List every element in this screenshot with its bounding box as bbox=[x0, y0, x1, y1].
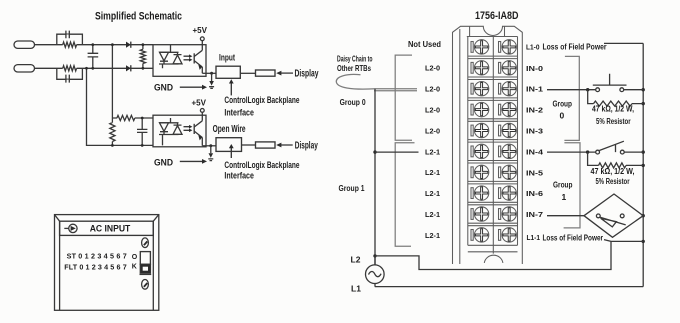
svg-text:Group 0: Group 0 bbox=[340, 97, 366, 107]
svg-text:+5V: +5V bbox=[193, 25, 208, 35]
svg-text:Loss of Field Power: Loss of Field Power bbox=[543, 232, 604, 242]
terminal screw row 4 left bbox=[471, 102, 489, 116]
L2-1 label row 9 bbox=[425, 210, 440, 219]
resistor R4 vertical between lines bbox=[140, 43, 145, 69]
terminal row separator 7 bbox=[468, 181, 518, 184]
svg-text:Group: Group bbox=[553, 98, 573, 108]
terminal row separator 10 bbox=[468, 244, 518, 246]
L2-1 label row 6 bbox=[425, 147, 440, 156]
svg-text:L2-1: L2-1 bbox=[425, 189, 440, 198]
svg-text:Open Wire: Open Wire bbox=[213, 124, 246, 135]
svg-text:Group: Group bbox=[553, 179, 573, 189]
terminal row separator 5 bbox=[468, 140, 518, 143]
terminal screw row 10 right bbox=[499, 228, 517, 242]
svg-text:K: K bbox=[132, 264, 137, 271]
svg-text:L2-1: L2-1 bbox=[425, 168, 440, 177]
Group 0 left label bbox=[340, 97, 366, 107]
svg-text:L1-0: L1-0 bbox=[526, 42, 540, 51]
svg-text:GND: GND bbox=[154, 83, 173, 93]
terminal row separator 3 bbox=[468, 98, 518, 101]
U2 phototransistor Q2 bbox=[194, 115, 202, 146]
wire tap from line2 down to bottom rail bbox=[85, 67, 153, 145]
IN-5 label bbox=[526, 168, 543, 177]
terminal screw row 6 left bbox=[471, 144, 489, 158]
L2-1 label row 7 bbox=[425, 168, 440, 177]
L2-1 label row 8 bbox=[425, 189, 440, 198]
ControlLogix Backplane Interface label (upper) bbox=[224, 95, 299, 119]
capacitor C3 between line1 and line2 bbox=[88, 43, 99, 69]
svg-text:L2-1: L2-1 bbox=[425, 231, 440, 240]
U1 phototransistor Q1 bbox=[194, 45, 202, 74]
terminal screw row 2 left bbox=[471, 61, 489, 75]
op-amp U1 optocoupler box (Input channel) bbox=[153, 45, 206, 77]
svg-text:47 kΩ, 1/2 W,: 47 kΩ, 1/2 W, bbox=[591, 167, 635, 176]
terminal screw row 5 left bbox=[471, 123, 489, 137]
L2-0 label row 4 bbox=[425, 106, 440, 115]
terminal screw row 8 left bbox=[471, 186, 489, 200]
terminal screw row 3 right bbox=[499, 82, 517, 96]
Not Used label bbox=[408, 39, 441, 49]
resistor 47k group 1 bbox=[588, 152, 644, 168]
wire IN-1 to switch S1 bbox=[547, 88, 596, 91]
+5V terminal upper bbox=[193, 25, 208, 45]
terminal block RTB outer housing bbox=[453, 26, 523, 264]
AC source V1 bbox=[366, 256, 385, 287]
resistor R1 on line1 bbox=[63, 42, 77, 47]
svg-text:IN-5: IN-5 bbox=[526, 168, 543, 177]
svg-text:IN-3: IN-3 bbox=[526, 127, 543, 136]
terminal screw row 7 left bbox=[471, 165, 489, 179]
Open Wire box bbox=[213, 124, 246, 152]
47 kOhm label group 1 bbox=[591, 167, 635, 186]
terminal screw row 9 right bbox=[499, 207, 517, 221]
wire IN-7 to diamond sensor bbox=[547, 215, 584, 217]
wire tap from line1 down to open-wire network bbox=[111, 43, 114, 118]
svg-text:L2-1: L2-1 bbox=[425, 147, 440, 156]
svg-text:IN-2: IN-2 bbox=[526, 106, 543, 115]
L2-0 label row 2 bbox=[425, 64, 440, 73]
ControlLogix Backplane Interface arrow (lower) bbox=[229, 144, 234, 158]
L2-1 label row 10 bbox=[425, 231, 440, 240]
OK indicator boxes bbox=[140, 252, 152, 275]
terminal row separator 6 bbox=[468, 161, 518, 164]
resistor R5 vertical bbox=[110, 118, 115, 147]
GND label and arrow (upper) bbox=[154, 83, 207, 93]
resistor R3 horizontal bbox=[112, 115, 153, 120]
wire L1-0 to L1 rail bbox=[604, 42, 643, 44]
svg-text:IN-1: IN-1 bbox=[526, 85, 543, 94]
L2-0 label row 3 bbox=[425, 85, 440, 94]
optocoupler U2 box (Open Wire channel) bbox=[153, 115, 206, 147]
group 1 right bracket bbox=[564, 143, 580, 228]
terminal screw row 6 right bbox=[499, 144, 517, 158]
Display label arrow (upper) bbox=[276, 69, 319, 80]
module front panel outer box bbox=[55, 215, 159, 311]
ground drop at U2 output bbox=[208, 146, 213, 161]
wire IN-4 to switch S2 bbox=[547, 150, 596, 153]
svg-text:GND: GND bbox=[154, 157, 173, 167]
svg-text:1: 1 bbox=[562, 192, 567, 202]
svg-text:L2-0: L2-0 bbox=[425, 106, 440, 115]
display indicator box (lower) bbox=[256, 142, 276, 148]
Daisy Chain to Other RTBs label bbox=[337, 53, 373, 73]
svg-text:L1: L1 bbox=[351, 283, 361, 293]
screw top bbox=[142, 238, 149, 248]
ground drop at U1 output bbox=[209, 73, 214, 88]
screw bottom bbox=[142, 280, 149, 290]
terminal screw row 8 right bbox=[499, 186, 517, 200]
title Simplified Schematic bbox=[95, 11, 182, 23]
group 1 left bracket bbox=[395, 143, 414, 246]
Group 1 left label bbox=[339, 183, 365, 193]
L1 bottom wire bbox=[375, 286, 643, 288]
IN-7 label bbox=[526, 210, 543, 219]
switch S2 (open) bbox=[596, 141, 644, 154]
terminal screw row 5 right bbox=[499, 123, 517, 137]
L1-0 Loss of Field Power label bbox=[526, 42, 607, 52]
capacitor C1 parallel branch above R1 bbox=[57, 31, 83, 45]
ControlLogix Backplane Interface label (lower) bbox=[224, 160, 299, 181]
terminal screw row 1 left bbox=[471, 40, 489, 54]
status text ST row bbox=[67, 251, 127, 260]
IN-1 label bbox=[526, 85, 543, 94]
terminal row separator 2 bbox=[468, 77, 518, 80]
switch S1 (closed) bbox=[593, 74, 643, 92]
svg-text:Display: Display bbox=[295, 141, 318, 152]
wire L2-1 feed bbox=[375, 151, 419, 153]
OK letters bbox=[132, 254, 138, 271]
capacitor C2 parallel branch below R2 bbox=[57, 68, 83, 82]
svg-text:Loss of Field Power: Loss of Field Power bbox=[543, 42, 608, 52]
terminal row separator 9 bbox=[468, 223, 518, 226]
U2 LED pair bbox=[159, 118, 182, 145]
svg-text:IN-4: IN-4 bbox=[526, 147, 544, 156]
terminal screw row 10 left bbox=[471, 228, 489, 242]
terminal screw row 2 right bbox=[499, 61, 517, 75]
L2-0 label row 5 bbox=[425, 126, 440, 135]
svg-text:+5V: +5V bbox=[192, 98, 207, 108]
resistor R2 on line2 bbox=[63, 66, 77, 71]
wire line2 from T2 to opto U1 bbox=[35, 67, 154, 69]
svg-text:Interface: Interface bbox=[224, 170, 254, 181]
svg-text:IN-7: IN-7 bbox=[526, 210, 543, 219]
L1-1 Loss of Field Power label bbox=[527, 232, 604, 242]
svg-text:5% Resistor: 5% Resistor bbox=[596, 177, 630, 186]
svg-text:ControlLogix Backplane: ControlLogix Backplane bbox=[224, 95, 299, 106]
terminal row separator 8 bbox=[468, 202, 518, 205]
loss of field power diamond sensor bbox=[584, 194, 643, 237]
wire L1-1 to diamond and L1 rail bbox=[375, 240, 643, 270]
terminal screw row 9 left bbox=[471, 207, 489, 221]
U1 light coupling arrows bbox=[184, 54, 193, 61]
svg-text:Interface: Interface bbox=[224, 108, 254, 119]
svg-text:O: O bbox=[132, 254, 138, 261]
input terminal oval T2 bbox=[14, 65, 35, 72]
L2 label bbox=[351, 254, 361, 264]
svg-text:L2: L2 bbox=[351, 254, 361, 264]
svg-text:1756-IA8D: 1756-IA8D bbox=[475, 10, 519, 22]
IN-2 label bbox=[526, 106, 543, 115]
Group 1 right label bbox=[553, 179, 573, 202]
svg-text:0: 0 bbox=[560, 111, 565, 121]
svg-text:5% Resistor: 5% Resistor bbox=[596, 117, 631, 126]
svg-text:Display: Display bbox=[295, 69, 319, 80]
svg-text:L2-0: L2-0 bbox=[425, 85, 440, 94]
svg-text:L2-0: L2-0 bbox=[425, 126, 440, 135]
svg-text:ST 0 1 2 3 4 5 6 7: ST 0 1 2 3 4 5 6 7 bbox=[67, 251, 127, 260]
diode D2 on line2 bbox=[126, 65, 131, 71]
svg-text:Simplified Schematic: Simplified Schematic bbox=[95, 11, 182, 23]
svg-text:L2-0: L2-0 bbox=[425, 64, 440, 73]
terminal row separator 1 bbox=[468, 56, 518, 59]
L1 right rail bbox=[642, 43, 645, 286]
terminal row separator 4 bbox=[468, 119, 518, 122]
wire U1 output to Input box bbox=[202, 72, 216, 75]
terminal screw row 4 right bbox=[499, 102, 517, 116]
svg-text:Other RTBs: Other RTBs bbox=[337, 63, 371, 73]
resistor 47k group 0 bbox=[588, 90, 644, 106]
module header strip AC INPUT bbox=[60, 221, 154, 235]
svg-text:Not Used: Not Used bbox=[408, 39, 441, 49]
terminal screw row 7 right bbox=[499, 165, 517, 179]
svg-text:ControlLogix Backplane: ControlLogix Backplane bbox=[224, 160, 299, 171]
U2 light coupling arrows bbox=[184, 125, 193, 132]
group 0 left bracket bbox=[395, 55, 412, 140]
wire line1 from T1 to opto U1 bbox=[35, 44, 154, 46]
svg-text:IN-6: IN-6 bbox=[526, 189, 543, 198]
IN-4 label bbox=[526, 147, 544, 156]
terminal grid frame bbox=[467, 37, 518, 246]
group 0 right bracket bbox=[564, 56, 579, 140]
status text FLT row bbox=[64, 263, 126, 272]
display indicator box (upper) bbox=[256, 70, 276, 76]
module input icon bbox=[64, 224, 77, 232]
svg-text:AC INPUT: AC INPUT bbox=[90, 224, 131, 234]
47 kOhm label group 0 bbox=[592, 104, 634, 126]
L1 label bbox=[351, 283, 361, 293]
IN-3 label bbox=[526, 127, 543, 136]
terminal screw row 1 right bbox=[499, 40, 517, 54]
svg-text:FLT 0 1 2 3 4 5 6 7: FLT 0 1 2 3 4 5 6 7 bbox=[64, 263, 126, 272]
terminal block bottom foot bbox=[468, 245, 518, 263]
svg-text:L1-1: L1-1 bbox=[527, 233, 541, 242]
wire U2 output to Open Wire box bbox=[202, 144, 216, 147]
+5V terminal lower bbox=[192, 98, 207, 116]
ControlLogix Backplane Interface arrow (upper) bbox=[229, 79, 234, 95]
svg-text:IN-0: IN-0 bbox=[526, 64, 543, 73]
title 1756-IA8D bbox=[475, 10, 519, 22]
svg-text:47 kΩ, 1/2 W,: 47 kΩ, 1/2 W, bbox=[592, 104, 634, 113]
wire Input box to display resistor bbox=[240, 72, 255, 74]
daisy chain hook arc bbox=[336, 74, 375, 89]
IN-0 label bbox=[526, 64, 543, 73]
diode D1 on line1 bbox=[126, 42, 131, 48]
IN-6 label bbox=[526, 189, 543, 198]
daisy chain double wire to L2-0 row bbox=[374, 89, 417, 91]
GND label and arrow (lower) bbox=[154, 157, 207, 167]
Input box bbox=[216, 52, 240, 78]
U1 LED pair bbox=[159, 45, 182, 69]
svg-text:Group 1: Group 1 bbox=[339, 183, 365, 193]
L2 daisy vertical wire bbox=[373, 89, 376, 265]
svg-text:Daisy Chain to: Daisy Chain to bbox=[337, 53, 373, 63]
terminal screw row 3 left bbox=[471, 82, 489, 96]
input terminal oval T1 bbox=[14, 41, 35, 48]
Group 0 right label bbox=[553, 98, 573, 120]
svg-text:Input: Input bbox=[219, 52, 235, 62]
svg-text:L2-1: L2-1 bbox=[425, 210, 440, 219]
capacitor C4 bbox=[137, 117, 147, 147]
wire Open Wire box to display resistor bbox=[242, 144, 256, 146]
Display label arrow (lower) bbox=[276, 141, 318, 152]
